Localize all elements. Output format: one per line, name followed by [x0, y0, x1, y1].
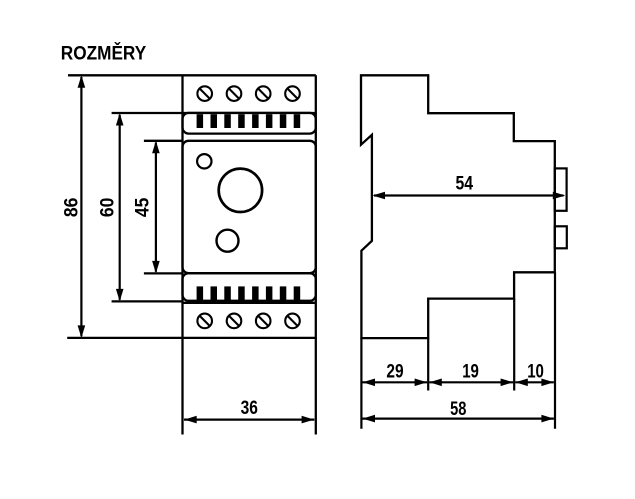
extension line at x=361.4 (58/29 dims)	[360, 338, 362, 429]
dimension 58 arrow right	[541, 415, 554, 423]
dimension 60 vertical line	[119, 115, 121, 300]
dimension 36 arrow right	[302, 416, 315, 424]
svg-text:58: 58	[450, 398, 466, 420]
dimension 19 line	[429, 381, 513, 383]
top terminal block bottom line with 60 extension line	[112, 112, 316, 114]
screw terminal bottom 4	[285, 314, 300, 329]
dimension 60 arrow up	[116, 113, 124, 126]
screw terminal bottom 3	[256, 314, 271, 329]
bottom terminal block top line	[183, 302, 316, 304]
dimension 19 arrow right	[501, 379, 513, 387]
dimension 45 arrow down	[152, 261, 160, 274]
svg-text:29: 29	[386, 361, 403, 383]
dimension 86 vertical line	[80, 77, 82, 336]
DIN clip tab lower	[555, 226, 567, 248]
dimension 36 line	[184, 419, 314, 421]
45 dim top extension line	[144, 140, 183, 142]
screw terminal bottom 1	[197, 314, 212, 329]
dimension 36 arrow left	[184, 416, 197, 424]
bottom vent slots	[197, 286, 301, 300]
front view top edge with 86 extension line	[68, 74, 316, 76]
svg-text:19: 19	[462, 361, 479, 383]
bottom terminal block bottom line with 86 extension line	[67, 337, 316, 339]
svg-text:10: 10	[527, 361, 544, 383]
svg-text:86: 86	[61, 197, 83, 217]
dimension 29 arrow right	[415, 379, 428, 387]
side view profile	[361, 75, 555, 338]
front view left edge	[181, 75, 183, 434]
small knob circle	[217, 230, 239, 252]
screw terminal top 2	[227, 86, 242, 101]
svg-text:45: 45	[131, 197, 153, 217]
dimension 54 line	[374, 194, 564, 196]
LED indicator circle	[197, 154, 211, 168]
dimension 58 arrow left	[363, 415, 376, 423]
dimension 10 arrow right	[541, 379, 554, 387]
svg-text:54: 54	[456, 172, 474, 194]
front view right edge	[315, 75, 317, 434]
60 dim bottom extension line	[112, 300, 183, 302]
dimension 86 arrow down	[78, 325, 86, 338]
dimension 29 arrow left	[363, 379, 376, 387]
extension line at x=428.2 (29/19 dims)	[427, 338, 429, 390]
dimension 54 arrow left	[373, 192, 386, 200]
dimension 45 vertical line	[155, 143, 157, 272]
extension line at x=555 (10/58 dims)	[554, 272, 556, 429]
bottom vent strip	[183, 273, 316, 301]
dimension 19 arrow left	[429, 379, 442, 387]
dimension 58 line	[363, 418, 554, 420]
screw terminal top 4	[285, 86, 300, 101]
top vent slots	[197, 114, 301, 128]
dimension 10 arrow left	[515, 379, 528, 387]
svg-text:ROZMĚRY: ROZMĚRY	[61, 41, 146, 65]
face plate	[183, 141, 316, 273]
dimension 10 line	[515, 381, 554, 383]
svg-text:60: 60	[97, 197, 119, 217]
top vent strip	[183, 113, 316, 134]
DIN clip tab upper	[555, 168, 567, 210]
screw terminal top 1	[197, 86, 212, 101]
dimension 29 line	[363, 381, 428, 383]
dimension 45 arrow up	[152, 141, 160, 154]
dimension 86 arrow up	[78, 75, 86, 88]
extension line at x=514.2 (19/10 dims)	[513, 299, 515, 391]
dimension 60 arrow down	[116, 289, 124, 302]
45 dim bottom extension line	[144, 272, 183, 274]
svg-text:36: 36	[241, 397, 258, 419]
dimension 54 arrow right	[553, 192, 566, 200]
screw terminal top 3	[256, 86, 271, 101]
screw terminal bottom 2	[227, 314, 242, 329]
large knob circle	[219, 169, 262, 212]
